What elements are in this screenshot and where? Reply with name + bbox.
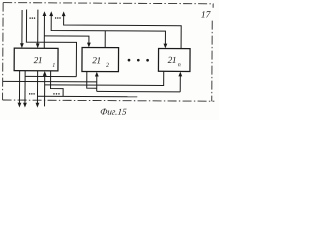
- arrow up into U3 bottom (v8): [178, 72, 182, 77]
- svg-text:21: 21: [92, 56, 101, 66]
- block U1 (21_1): [14, 48, 58, 71]
- wire L2 top-left down to bus T4: [26, 10, 76, 77]
- wire U1 bottom output v2 exiting border: [24, 71, 26, 104]
- wire branch of P3 down into U2 top: [104, 31, 106, 48]
- arrow down into U1 top (L3): [36, 43, 40, 48]
- wire H1 bus from L4 to U2 top: [44, 36, 89, 44]
- wire U1 bottom output v5 with jog to bus b4: [50, 71, 63, 96]
- wire bus b7 from v4 to U3 bottom output: [45, 71, 164, 86]
- svg-text:1: 1: [52, 63, 55, 69]
- dash-dot enclosure border 17: [3, 3, 215, 102]
- arrow down into U2 top (H1): [87, 43, 91, 48]
- svg-text:Фиг.15: Фиг.15: [100, 107, 128, 117]
- ellipsis top-left group B: [55, 17, 61, 19]
- arrow up out (L5): [49, 11, 53, 16]
- svg-text:21: 21: [34, 56, 43, 66]
- wire top input L3 into U1: [37, 10, 39, 45]
- ellipsis top-left group A: [29, 17, 35, 19]
- wire riser v7 up into U2 bottom: [96, 76, 98, 92]
- ellipsis bottom group B: [53, 93, 60, 95]
- arrow up out (L6): [62, 11, 66, 16]
- wire top input L1 into U1: [21, 10, 23, 45]
- svg-text:21: 21: [168, 56, 177, 66]
- arrow exit bottom v3: [36, 103, 40, 108]
- wire riser v8 up into U3 bottom: [179, 76, 181, 92]
- arrow up out (L4): [43, 11, 47, 16]
- arrow down into U3 top (P3): [163, 44, 167, 49]
- wire L6 up-output elbow to bus P1: [63, 15, 181, 49]
- arrowheads: [18, 11, 183, 108]
- wire bus b4 lower bus: [37, 95, 137, 98]
- arrow exit bottom v1: [18, 103, 22, 108]
- wire U1 bottom output v1 exiting border: [18, 71, 20, 104]
- svg-text:17: 17: [201, 11, 212, 21]
- block U3 (21_n): [158, 48, 190, 71]
- wire bus b1 from v2 to riser x=76.4: [25, 75, 76, 77]
- ellipsis between U2 and U3: [128, 59, 149, 62]
- wire U1 bottom output v3 exiting border: [36, 71, 38, 104]
- block U2 (21_2): [82, 47, 119, 71]
- arrow up into U2 bottom (v7): [95, 72, 99, 77]
- wire L4 up-output of U1 (vertical x=44.2): [43, 15, 45, 48]
- arrow down into U1 top (L1): [20, 43, 24, 48]
- svg-text:n: n: [178, 62, 181, 68]
- svg-text:2: 2: [106, 63, 109, 69]
- wire bus b2 from left border to U2 bottom riser: [3, 80, 97, 83]
- wire bus b5 to U3 riser: [97, 90, 180, 92]
- wire U2 bottom output v9 jog to riser: [87, 71, 97, 88]
- arrow exit bottom v2: [23, 103, 27, 108]
- wire v4 external input up into U1 bottom: [44, 75, 46, 106]
- wire L5 up-output elbow to bus P3: [51, 15, 165, 45]
- arrow up into U1 bottom (v4): [43, 71, 47, 76]
- ellipsis bottom group A: [29, 93, 35, 95]
